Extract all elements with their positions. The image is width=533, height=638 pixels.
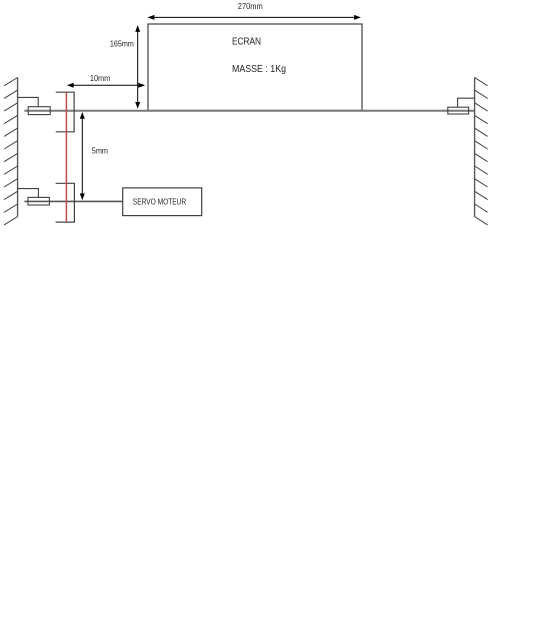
dimension 270mm right arrowhead bbox=[354, 15, 361, 20]
dimension 165mm top arrowhead bbox=[135, 25, 140, 32]
svg-text:SERVO MOTEUR: SERVO MOTEUR bbox=[133, 198, 186, 207]
dimension 10mm line bbox=[72, 84, 141, 86]
upper-left mount step bbox=[18, 97, 39, 106]
lower-left mount step bbox=[18, 189, 39, 198]
svg-text:270mm: 270mm bbox=[238, 2, 263, 11]
beam lower link to servo bbox=[24, 200, 122, 202]
svg-text:165mm: 165mm bbox=[110, 40, 134, 49]
upper-left bearing bbox=[28, 107, 50, 115]
right wall hatching bbox=[475, 78, 488, 225]
dimension 270mm line bbox=[153, 16, 356, 18]
screen body rectangle ECRAN bbox=[148, 24, 362, 111]
dimension 10mm right arrowhead bbox=[138, 83, 145, 88]
lower pivot bracket bbox=[56, 183, 75, 222]
dimension 5mm bottom arrowhead bbox=[80, 193, 85, 200]
svg-text:5mm: 5mm bbox=[92, 147, 109, 156]
servo motor box bbox=[123, 188, 202, 216]
red pivot axis shaft bbox=[65, 92, 67, 222]
dimension 10mm left arrowhead bbox=[67, 83, 74, 88]
beam upper shaft bbox=[24, 110, 474, 112]
upper pivot bracket bbox=[56, 92, 74, 132]
dimension 165mm bottom arrowhead bbox=[135, 102, 140, 109]
left wall hatching bbox=[4, 78, 18, 225]
right mount step bbox=[458, 98, 475, 107]
right wall line bbox=[474, 77, 476, 216]
svg-text:MASSE : 1Kg: MASSE : 1Kg bbox=[232, 63, 286, 75]
dimension 5mm top arrowhead bbox=[80, 112, 85, 119]
dimension 270mm left arrowhead bbox=[148, 15, 155, 20]
svg-text:ECRAN: ECRAN bbox=[232, 37, 261, 48]
svg-text:10mm: 10mm bbox=[90, 74, 111, 83]
dimension 5mm line bbox=[81, 117, 83, 196]
left wall line bbox=[17, 77, 19, 216]
dimension 165mm line bbox=[137, 30, 139, 104]
lower-left bearing bbox=[28, 197, 49, 205]
right bearing bbox=[448, 107, 469, 114]
